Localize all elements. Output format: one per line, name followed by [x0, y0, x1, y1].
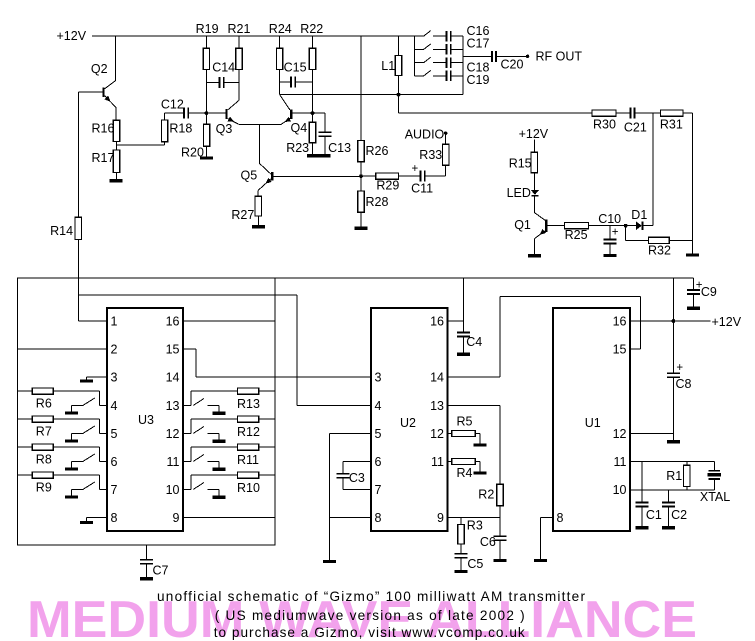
resistor R17: [113, 150, 119, 173]
svg-text:16: 16: [430, 315, 444, 329]
wire Q2 base vertical down to U3: [77, 92, 79, 217]
svg-text:C21: C21: [624, 120, 647, 134]
svg-text:11: 11: [167, 455, 180, 469]
svg-text:to purchase a Gizmo, visit www: to purchase a Gizmo, visit www.vcomp.co.…: [214, 625, 525, 640]
svg-text:R17: R17: [92, 151, 115, 165]
ground under Q1 emitter: [528, 254, 541, 257]
svg-text:15: 15: [166, 343, 180, 357]
resistor R18: [161, 120, 167, 142]
resistor R2: [497, 484, 503, 506]
capacitor C13: [314, 112, 325, 114]
transistor Q1: [545, 220, 547, 232]
ground under R17: [109, 179, 122, 182]
svg-text:Q2: Q2: [91, 62, 108, 76]
svg-text:10: 10: [166, 483, 180, 497]
svg-text:R23: R23: [286, 141, 309, 155]
AUDIO input terminal: [444, 132, 447, 135]
svg-text:L1: L1: [381, 59, 395, 73]
ground at switch R9 row: [65, 496, 78, 499]
svg-text:R19: R19: [196, 22, 219, 36]
capacitor C16: [446, 31, 448, 42]
resistor R4: [448, 461, 452, 463]
wire L1 bottom to R30 line: [398, 95, 400, 114]
svg-text:9: 9: [437, 511, 444, 525]
svg-text:R2: R2: [478, 488, 494, 502]
switch for C18: [415, 62, 424, 64]
svg-text:R29: R29: [376, 179, 399, 193]
wire U3 pin14 to U2 pin3: [196, 376, 371, 378]
svg-text:U3: U3: [138, 413, 154, 427]
svg-text:R11: R11: [237, 453, 259, 467]
svg-text:6: 6: [375, 455, 382, 469]
svg-text:LED: LED: [507, 186, 531, 200]
node L1 bottom junction dot: [397, 93, 401, 97]
crystal XTAL: [713, 462, 715, 470]
svg-text:13: 13: [166, 399, 180, 413]
node Q4-base junction dot: [311, 111, 315, 115]
wire switch-bank right bus: [462, 36, 464, 95]
svg-text:1: 1: [111, 315, 118, 329]
ground at switch R7 row: [65, 440, 78, 443]
svg-text:C17: C17: [467, 37, 490, 51]
svg-text:C5: C5: [467, 557, 483, 571]
switch at U3 pin12: [183, 433, 191, 435]
svg-text:7: 7: [111, 483, 118, 497]
wire U2 pin13 down to R2: [448, 405, 501, 407]
svg-text:12: 12: [613, 427, 627, 441]
svg-text:+: +: [612, 226, 619, 238]
capacitor C4: [457, 332, 470, 334]
capacitor C19: [446, 71, 448, 82]
wire R16/R17 node to R18: [117, 144, 165, 146]
resistor R16: [113, 120, 119, 141]
svg-text:Q4: Q4: [291, 121, 308, 135]
svg-text:R30: R30: [593, 118, 616, 132]
ground under C9: [687, 307, 700, 310]
svg-text:U1: U1: [585, 416, 601, 430]
wire U1 pin11 line: [630, 461, 714, 463]
svg-text:+12V: +12V: [712, 315, 742, 329]
resistor R13: [190, 391, 192, 405]
svg-text:C8: C8: [676, 377, 692, 391]
svg-text:Q1: Q1: [514, 218, 531, 232]
ground under U2 pin8 bus: [323, 560, 336, 563]
ground at R4: [473, 471, 486, 474]
wire U1 pin12 stub: [630, 433, 673, 435]
ground under R31/R32 vertical: [686, 253, 699, 256]
resistor R20: [205, 115, 207, 124]
svg-text:R18: R18: [169, 122, 192, 136]
svg-text:R22: R22: [300, 22, 323, 36]
switch for C16: [415, 35, 424, 37]
switch at U3 pin7: [100, 489, 107, 491]
svg-text:+12V: +12V: [519, 127, 549, 141]
ground at switch R10 row: [213, 496, 226, 499]
IC U3: [107, 308, 183, 531]
resistor R22: [312, 36, 314, 48]
ground at U1 pin8: [541, 517, 553, 519]
svg-text:14: 14: [430, 371, 444, 385]
svg-text:RF OUT: RF OUT: [536, 49, 583, 63]
svg-text:R15: R15: [509, 157, 532, 171]
svg-text:R24: R24: [269, 22, 292, 36]
svg-text:R32: R32: [648, 244, 671, 258]
wire U2 pin14 to U1 pin15: [448, 376, 501, 378]
svg-text:5: 5: [375, 427, 382, 441]
svg-text:R4: R4: [457, 466, 473, 480]
svg-text:R13: R13: [237, 397, 260, 411]
svg-text:12: 12: [166, 427, 180, 441]
svg-text:8: 8: [375, 511, 382, 525]
svg-text:2: 2: [111, 343, 118, 357]
svg-text:C2: C2: [671, 508, 687, 522]
resistor R29: [363, 175, 376, 177]
svg-text:R12: R12: [237, 425, 260, 439]
svg-text:C14: C14: [212, 60, 235, 74]
resistor R1: [686, 462, 688, 466]
wire node A from Q2 base line to U2 pin4: [78, 294, 297, 296]
svg-text:R8: R8: [36, 453, 52, 467]
resistor R31: [661, 110, 683, 116]
svg-text:C1: C1: [646, 508, 662, 522]
svg-text:R27: R27: [231, 208, 254, 222]
diode LED: [531, 190, 539, 195]
svg-text:13: 13: [430, 399, 444, 413]
resistor R14: [75, 217, 81, 239]
switch at U3 pin5: [100, 433, 107, 435]
switch at U3 pin6: [100, 461, 107, 463]
resistor R21: [238, 36, 240, 48]
svg-text:R26: R26: [366, 144, 389, 158]
capacitor C10 (electrolytic): [610, 225, 626, 227]
wire top bus down through C8: [672, 278, 674, 372]
ground under C4: [457, 353, 470, 356]
resistor R23: [312, 115, 314, 122]
ground under C6: [494, 559, 507, 562]
ground under C10: [603, 254, 616, 257]
resistor R11: [190, 447, 192, 461]
resistor R25: [565, 223, 589, 229]
wire Q3/Q4 emitter bus: [239, 123, 281, 125]
ground at switch R12 row: [213, 440, 226, 443]
svg-text:R33: R33: [419, 148, 442, 162]
resistor R26: [360, 36, 362, 141]
svg-text:+: +: [676, 362, 683, 374]
svg-text:R10: R10: [237, 481, 260, 495]
svg-text:3: 3: [111, 371, 118, 385]
svg-text:R9: R9: [36, 481, 52, 495]
IC U1: [553, 308, 630, 531]
svg-text:R14: R14: [50, 224, 73, 238]
svg-text:C3: C3: [349, 471, 365, 485]
svg-text:+12V: +12V: [57, 29, 87, 43]
svg-text:C13: C13: [328, 141, 351, 155]
node U1 pin16 junction dot: [672, 319, 676, 323]
svg-text:unofficial schematic of “Gizmo: unofficial schematic of “Gizmo” 100 mill…: [157, 589, 585, 604]
resistor R15: [533, 140, 535, 153]
svg-text:5: 5: [111, 427, 118, 441]
svg-text:C9: C9: [701, 285, 717, 299]
ground at U3 pin8: [87, 517, 107, 519]
capacitor C17: [446, 44, 448, 55]
switch for C17: [415, 48, 424, 50]
svg-text:R5: R5: [457, 414, 473, 428]
wire U3 pin16 to enclosure right bus: [183, 320, 275, 322]
ground under R23 and C13: [307, 154, 331, 158]
capacitor C12: [165, 112, 184, 114]
svg-text:C10: C10: [598, 212, 621, 226]
svg-text:R1: R1: [666, 469, 682, 483]
capacitor C15: [280, 81, 291, 83]
ground at switch R6 row: [65, 412, 78, 415]
svg-text:16: 16: [166, 315, 180, 329]
ground under C7: [140, 577, 153, 580]
resistor R12: [190, 419, 192, 433]
svg-text:( US mediumwave version as of: ( US mediumwave version as of late 2002 …: [215, 608, 525, 623]
svg-text:14: 14: [166, 371, 180, 385]
wire U3 pin1 stub: [78, 320, 107, 322]
svg-text:C12: C12: [161, 97, 184, 111]
svg-text:12: 12: [430, 427, 444, 441]
wire U2 pin5/pin8 ground bus: [330, 433, 372, 435]
IC U2: [371, 308, 448, 531]
switch at U3 pin10: [183, 489, 191, 491]
svg-text:4: 4: [375, 399, 382, 413]
svg-text:R21: R21: [228, 22, 251, 36]
svg-text:Q5: Q5: [241, 169, 258, 183]
ground under C2: [662, 526, 675, 529]
capacitor C6: [494, 536, 507, 538]
svg-text:16: 16: [613, 315, 627, 329]
resistor R5: [448, 433, 452, 435]
wire U2 pin9 line: [448, 517, 501, 519]
resistor R19: [205, 36, 207, 48]
svg-text:C19: C19: [467, 73, 490, 87]
diode D1: [626, 225, 637, 227]
resistor R27: [257, 190, 259, 196]
enclosure box around U3 section: [17, 278, 275, 545]
wire +12V rail: [92, 35, 415, 37]
svg-text:9: 9: [173, 511, 180, 525]
svg-text:15: 15: [613, 343, 627, 357]
ground at R5: [473, 443, 486, 446]
switch at U3 pin13: [183, 405, 191, 407]
svg-text:C11: C11: [411, 181, 433, 195]
resistor R28: [360, 176, 362, 191]
resistor R6: [17, 390, 32, 392]
resistor R32: [625, 226, 627, 241]
ground at switch R8 row: [65, 468, 78, 471]
ground at switch R13 row: [213, 412, 226, 415]
ground under R27: [252, 225, 265, 228]
node Q3-base junction dot: [205, 111, 209, 115]
capacitor C14: [206, 81, 218, 83]
switch at U3 pin11: [183, 461, 191, 463]
RF OUT terminal: [526, 55, 529, 58]
svg-text:6: 6: [111, 455, 118, 469]
wire switch-bank left bus: [414, 36, 416, 76]
ground at switch R11 row: [213, 468, 226, 471]
wire feedback vertical to D1: [652, 113, 654, 226]
svg-text:4: 4: [111, 399, 118, 413]
resistor R10: [190, 475, 192, 489]
svg-text:8: 8: [111, 511, 118, 525]
svg-text:R25: R25: [565, 228, 588, 242]
resistor R7: [17, 418, 32, 420]
svg-text:C6: C6: [480, 535, 496, 549]
wire tank output line: [280, 94, 463, 96]
ground at U3 pin3: [87, 376, 107, 378]
resistor R33: [443, 144, 449, 165]
wire U1 pin16 to +12V: [630, 320, 711, 322]
svg-text:+: +: [412, 163, 419, 175]
svg-text:U2: U2: [400, 416, 416, 430]
svg-text:R3: R3: [467, 518, 483, 532]
ground under R28: [355, 227, 368, 230]
wire top bus from enclosure to C9: [275, 277, 694, 279]
capacitor C18: [446, 57, 448, 68]
svg-text:R7: R7: [36, 425, 52, 439]
wire top bus down to U2 pin16: [462, 278, 464, 332]
node D1/R32 junction dot: [624, 224, 628, 228]
capacitor C7: [145, 545, 147, 559]
svg-text:R6: R6: [36, 397, 52, 411]
capacitor C21: [630, 108, 632, 119]
svg-text:C20: C20: [501, 57, 524, 71]
svg-text:Q3: Q3: [216, 122, 233, 136]
svg-text:11: 11: [614, 455, 627, 469]
capacitor C2: [668, 490, 670, 502]
svg-text:D1: D1: [631, 208, 647, 222]
switch for C19: [415, 75, 424, 77]
inductor L1: [398, 36, 400, 56]
capacitor C5: [460, 544, 462, 553]
svg-text:XTAL: XTAL: [700, 490, 730, 504]
svg-text:C4: C4: [466, 335, 482, 349]
svg-text:8: 8: [557, 511, 564, 525]
wire U3 pin15 jumper to pin14 line: [183, 348, 196, 350]
svg-text:R31: R31: [660, 118, 683, 132]
wire R31 to R32/ground vertical: [691, 113, 693, 253]
capacitor C11 (electrolytic): [420, 171, 422, 182]
wire U1 pin10 line: [630, 489, 714, 491]
svg-text:11: 11: [431, 455, 444, 469]
transistor Q4 (mirrored): [290, 109, 292, 119]
switch at U3 pin4: [100, 405, 107, 407]
svg-text:AUDIO: AUDIO: [405, 128, 445, 142]
transistor Q5: [271, 172, 273, 180]
svg-text:C15: C15: [284, 60, 307, 74]
ground under R20: [200, 156, 213, 159]
transistor Q2: [102, 88, 104, 98]
resistor R30: [592, 110, 616, 116]
ground under C1: [635, 526, 648, 529]
capacitor C9 (electrolytic): [693, 278, 695, 289]
resistor R8: [17, 446, 32, 448]
capacitor C3: [343, 461, 371, 463]
capacitor C1: [641, 462, 643, 502]
svg-text:C7: C7: [153, 564, 169, 578]
wire U3 pin9 to enclosure right bus: [183, 517, 275, 519]
svg-text:10: 10: [613, 483, 627, 497]
svg-text:R16: R16: [92, 122, 115, 136]
resistor R9: [17, 474, 32, 476]
ground under C8/pin12: [667, 440, 680, 443]
wire U3 pin2 to enclosure: [17, 348, 107, 350]
capacitor C20: [463, 55, 491, 57]
svg-text:3: 3: [375, 371, 382, 385]
resistor R3: [460, 518, 462, 525]
svg-text:7: 7: [375, 483, 382, 497]
node R26/R28/R29 junction dot: [359, 174, 363, 178]
ground under C5: [455, 570, 468, 573]
transistor Q3: [225, 109, 227, 119]
resistor R24: [279, 36, 281, 48]
svg-text:R28: R28: [366, 195, 389, 209]
